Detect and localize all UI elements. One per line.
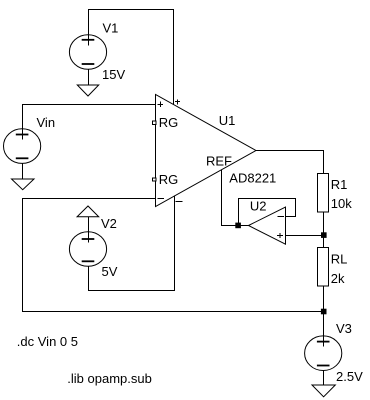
voltage source V2 — [69, 232, 106, 267]
label V2 — [101, 216, 117, 231]
wire U1 output to R1 — [256, 151, 324, 174]
U1 pin label +IN — [158, 102, 164, 108]
U1 RG pin square (top) — [153, 121, 156, 124]
svg-text:AD8221: AD8221 — [229, 171, 276, 186]
svg-text:5V: 5V — [102, 264, 118, 279]
node junction REF/U2 output — [235, 223, 241, 229]
wire REF pin to U2 output — [222, 170, 249, 226]
node junction R1/RL/U2+ — [321, 232, 327, 238]
svg-text:RG: RG — [159, 172, 179, 187]
value 5V — [102, 264, 118, 279]
svg-text:REF: REF — [206, 154, 232, 169]
wire Vin minus to ground — [22, 164, 24, 180]
wire V1 minus to ground — [88, 69, 90, 84]
value 10k — [331, 196, 352, 211]
wire U1 V- supply to V2 minus — [89, 196, 175, 291]
voltage source V3 — [305, 336, 342, 371]
svg-text:2.5V: 2.5V — [336, 369, 363, 384]
svg-text:U2: U2 — [250, 199, 267, 214]
voltage source V1 — [69, 35, 106, 70]
svg-text:2k: 2k — [331, 271, 345, 286]
U2 pin label -IN — [278, 216, 285, 218]
svg-text:RG: RG — [159, 115, 179, 130]
resistor R1 — [318, 174, 329, 213]
U1 pin label V- — [176, 201, 183, 203]
svg-text:V1: V1 — [103, 20, 119, 35]
label RG (bottom) — [159, 172, 179, 187]
op-amp U1 — [156, 95, 257, 207]
wire V3 minus to ground — [323, 371, 325, 385]
label R1 — [331, 177, 348, 192]
ground (below Vin) — [12, 179, 35, 190]
value 2.5V — [336, 369, 363, 384]
label U1 — [219, 113, 236, 128]
svg-text:V2: V2 — [101, 216, 117, 231]
label RG (top) — [159, 115, 179, 130]
svg-text:.dc Vin 0 5: .dc Vin 0 5 — [17, 334, 78, 349]
label AD8221 — [229, 171, 276, 186]
label V3 — [336, 321, 352, 336]
wire V1 plus to U1 V+ supply pin — [89, 10, 174, 105]
wire U2 +IN to divider node — [286, 235, 324, 237]
U1 pin label -IN — [158, 198, 165, 200]
spice directive .lib — [67, 371, 152, 386]
svg-text:Vin: Vin — [37, 115, 56, 130]
spice directive .dc — [17, 334, 78, 349]
svg-text:10k: 10k — [331, 196, 352, 211]
value 15V — [102, 67, 125, 82]
label RL — [331, 251, 348, 266]
U1 RG pin square (bottom) — [153, 178, 156, 181]
svg-text:RL: RL — [331, 251, 348, 266]
U2 pin label +IN — [277, 233, 283, 238]
wire RL bottom to V3 plus — [323, 286, 325, 347]
U2 feedback wire output to -IN — [239, 199, 296, 226]
ground (below V1) — [77, 85, 98, 96]
svg-text:.lib opamp.sub: .lib opamp.sub — [67, 371, 152, 386]
voltage source Vin — [4, 129, 41, 164]
wire Vin plus to U1 +IN — [23, 105, 156, 140]
label V1 — [103, 20, 119, 35]
label Vin — [37, 115, 56, 130]
label U2 — [250, 199, 267, 214]
wire U1 -IN to bottom net and node V3 — [23, 199, 324, 312]
svg-text:U1: U1 — [219, 113, 236, 128]
wire R1 bottom to RL top — [323, 212, 325, 248]
polarity arrow above V2 — [77, 206, 99, 243]
value 2k — [331, 271, 345, 286]
svg-text:15V: 15V — [102, 67, 125, 82]
node junction RL/V3/bottom net — [321, 309, 327, 315]
svg-text:R1: R1 — [331, 177, 348, 192]
resistor RL — [318, 248, 329, 287]
ground (below V3) — [312, 385, 335, 397]
U1 pin label V+ — [175, 100, 180, 105]
svg-text:V3: V3 — [336, 321, 352, 336]
op-amp U2 — [249, 207, 286, 244]
label REF — [206, 154, 232, 169]
